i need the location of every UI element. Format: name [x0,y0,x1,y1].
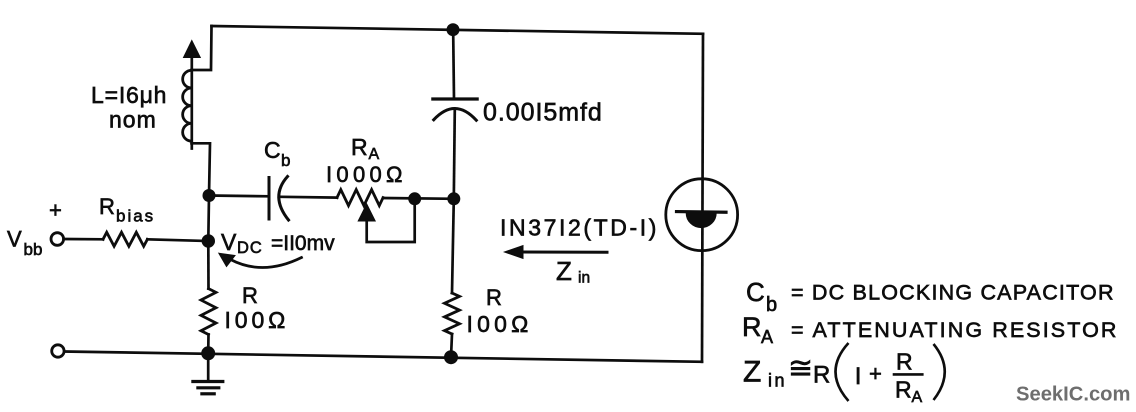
svg-text:R: R [242,283,258,308]
svg-text:in: in [768,371,787,391]
tunnel diode D1 circle [666,179,738,251]
svg-text:R: R [896,349,913,375]
svg-text:R: R [351,134,368,160]
inductor L1 adjust arrow shaft [190,50,193,149]
svg-text:A: A [912,389,923,406]
junction node J7 bottom [444,350,458,364]
wire mid vertical J5 to R2 [452,199,454,293]
wire to resistor R1 [207,241,210,289]
svg-text:I00Ω: I00Ω [225,307,290,333]
formula fraction bar [893,373,924,376]
svg-text:I: I [855,363,862,390]
junction node J2 [202,234,215,247]
terminal circle bottom left [52,345,64,357]
svg-text:R: R [895,377,912,403]
junction node J6 top [447,23,460,36]
resistor R2 zigzag [445,293,460,334]
svg-text:bb: bb [24,240,43,259]
svg-text:+: + [869,361,882,386]
svg-text:R: R [99,194,115,219]
tunnel diode D1 anode dome [686,213,716,228]
svg-text:A: A [761,327,773,347]
svg-text:R: R [742,312,762,342]
terminal circle Vbb [51,233,64,246]
svg-text:A: A [369,146,380,163]
svg-text:IN37I2(TD-I): IN37I2(TD-I) [500,215,659,241]
wire junction J1 to capacitor Cb [209,194,269,198]
wire RA to junctions [383,197,454,201]
inductor L1 arrowhead [184,41,201,58]
arrow Zin head [505,246,524,259]
ground bar 2 [198,386,219,389]
potentiometer RA wiper loop wire [367,199,415,242]
potentiometer RA zigzag [337,190,383,206]
ground bar 3 [202,392,214,395]
tunnel diode D1 cathode bar [677,210,727,214]
svg-text:b: b [766,294,777,316]
capacitor Cb right curved plate [279,177,289,221]
svg-text:I000Ω: I000Ω [326,162,407,187]
svg-text:nom: nom [109,107,157,133]
junction node J1 [203,189,216,202]
wire mid vertical top [452,34,455,99]
svg-text:bias: bias [116,207,155,226]
arrow Zin line [521,251,607,254]
svg-text:in: in [578,270,590,287]
svg-text:Z: Z [743,356,761,389]
ground stub [207,353,210,380]
svg-text:= ATTENUATING RESISTOR: = ATTENUATING RESISTOR [791,318,1119,342]
wire left step top [192,26,212,70]
svg-text:R: R [486,285,502,310]
capacitor C2 curved bottom plate [434,109,477,121]
wire top horizontal [212,26,704,34]
svg-text:SeekIC.com: SeekIC.com [1016,384,1130,406]
wire Rbias to junction J2 [147,239,208,241]
potentiometer RA wiper arrowhead [358,204,375,221]
svg-text:L=I6μh: L=I6μh [91,82,167,108]
svg-text:+: + [49,198,62,223]
formula left paren [836,343,849,401]
terminal Vbb wire [64,238,103,241]
wire Cb to RA [281,195,337,199]
wire R1 to bottom junction [207,335,210,354]
capacitor C2 top plate [433,97,477,100]
svg-text:b: b [281,151,290,170]
wire R2 to bottom junction [451,334,452,357]
junction node J5 mid [447,192,460,205]
svg-text:≅: ≅ [788,352,813,385]
svg-text:DC: DC [237,239,263,257]
arc VDC arrowhead [219,253,235,266]
svg-text:V: V [7,226,22,251]
resistor Rbias zigzag [103,232,147,246]
svg-text:C: C [746,277,765,307]
wire right vertical [702,34,703,362]
wire mid vertical between C2 and J5 [454,109,455,199]
svg-text:Z: Z [556,256,572,286]
formula right paren [934,344,945,400]
wire left vertical middle [207,196,210,242]
wire bottom horizontal [65,352,703,362]
ground bar 1 [193,380,223,383]
junction node J3 ground [201,346,215,360]
svg-text:I00Ω: I00Ω [467,311,533,337]
svg-text:=II0mv: =II0mv [271,232,335,255]
svg-text:= DC BLOCKING CAPACITOR: = DC BLOCKING CAPACITOR [791,281,1115,305]
svg-text:V: V [221,229,237,255]
inductor L1 coil [183,70,192,141]
wire left step bottom [192,143,211,195]
svg-text:R: R [813,362,830,389]
junction node J4 wiper [408,192,421,205]
svg-text:C: C [264,137,281,163]
resistor R1 zigzag [201,289,216,335]
capacitor Cb left plate [268,178,271,220]
arc VDC measurement arrow [231,258,302,268]
svg-text:0.00I5mfd: 0.00I5mfd [483,99,603,127]
